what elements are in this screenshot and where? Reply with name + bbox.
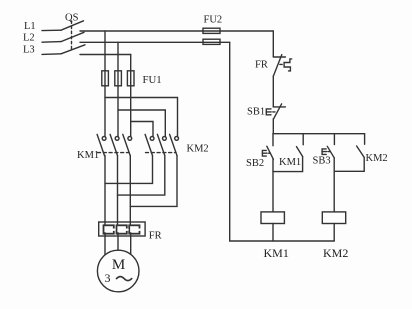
svg-text:3: 3 — [105, 271, 111, 285]
fuse FU1 — [102, 71, 134, 86]
svg-text:KM2: KM2 — [187, 144, 209, 155]
wire KM2 pole1 merge — [105, 156, 153, 184]
svg-text:M: M — [112, 257, 125, 273]
svg-text:SB1: SB1 — [247, 107, 265, 118]
wire FR to SB1 — [272, 76, 274, 107]
thermal relay FR heaters — [99, 222, 145, 236]
svg-text:FR: FR — [149, 230, 162, 241]
wire jog phase C to KM2 pole1 — [131, 122, 153, 137]
contactor KM1 aux contact (NO) — [297, 134, 304, 157]
wire motor V — [117, 233, 119, 250]
wire L3 — [80, 54, 131, 56]
wire KM1 pole1 down — [104, 156, 106, 226]
svg-text:KM1: KM1 — [264, 246, 289, 260]
pushbutton SB3 (NO start rev) — [322, 134, 334, 158]
disconnect switch QS — [61, 21, 85, 54]
wire L1 to FU2 — [80, 30, 273, 32]
wire L3 left — [42, 53, 61, 56]
svg-text:FR: FR — [255, 60, 268, 71]
svg-text:L1: L1 — [24, 21, 36, 32]
coil KM1 — [261, 212, 284, 224]
svg-text:KM2: KM2 — [366, 153, 388, 164]
wire bottom bus — [230, 240, 335, 242]
svg-text:SB2: SB2 — [246, 158, 264, 169]
wire KM1 aux to SB2 — [273, 157, 303, 172]
wire control neutral drop — [229, 42, 231, 241]
svg-text:QS: QS — [65, 13, 79, 24]
contactor KM2 aux contact (NO) — [357, 134, 365, 158]
wire KM2 aux to SB3 — [334, 157, 364, 171]
wire L2 left — [42, 41, 61, 44]
wire phase B drop — [117, 42, 119, 136]
wire KM1 pole3 down — [129, 156, 131, 226]
svg-text:L3: L3 — [23, 45, 35, 56]
wire SB1 to branch bus — [272, 119, 274, 134]
contactor KM2 main contacts — [145, 134, 178, 155]
wire L1 left — [42, 29, 61, 31]
svg-text:KM1: KM1 — [77, 150, 99, 161]
svg-text:SB3: SB3 — [313, 156, 331, 167]
thermal relay FR contact (NC) — [273, 55, 291, 77]
svg-text:FU2: FU2 — [204, 15, 223, 26]
wire phase C drop — [130, 55, 132, 137]
wire jog phase B to KM2 pole2 — [118, 110, 165, 137]
wire jog phase A to KM2 pole3 — [105, 98, 178, 137]
motor M — [97, 250, 139, 292]
svg-text:L2: L2 — [23, 33, 35, 44]
contactor KM1 main contacts — [97, 134, 132, 155]
wire motor U — [104, 233, 106, 255]
wire control live drop — [272, 31, 274, 57]
svg-text:FU1: FU1 — [143, 74, 162, 86]
wire motor W — [130, 233, 132, 255]
wire phase A drop — [104, 31, 106, 137]
pushbutton SB2 (NO start fwd) — [262, 134, 273, 160]
svg-text:KM1: KM1 — [279, 157, 301, 168]
wire KM2 pole3 merge — [130, 156, 177, 207]
wire SB3 branch to KM2 coil — [333, 158, 335, 212]
coil KM2 — [322, 212, 345, 224]
wire KM2 pole2 merge — [118, 156, 165, 196]
pushbutton SB1 (NC stop) — [266, 104, 285, 119]
wire KM1 coil to bottom bus — [272, 224, 274, 242]
wire KM1 pole2 down — [117, 156, 119, 226]
svg-text:KM2: KM2 — [323, 246, 348, 260]
fuse FU2 — [203, 28, 220, 44]
wire L2 to FU2 — [80, 41, 230, 43]
wire KM2 coil to bottom bus — [333, 224, 335, 242]
wire branch bus — [273, 133, 365, 135]
wire SB2 branch to KM1 coil — [272, 159, 274, 212]
